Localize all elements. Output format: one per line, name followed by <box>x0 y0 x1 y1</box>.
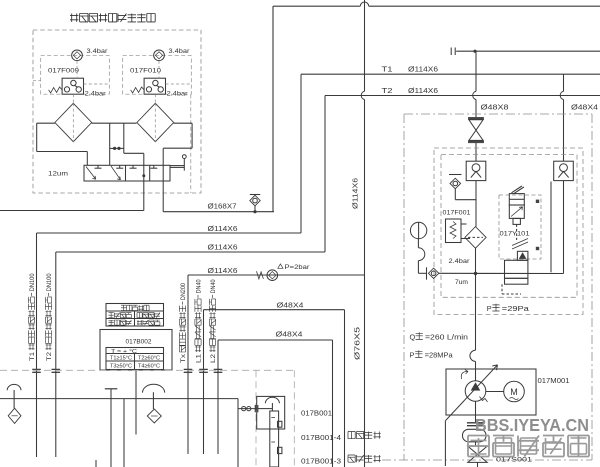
svg-text:017F001: 017F001 <box>443 210 471 217</box>
svg-text:L1: L1 <box>196 353 203 363</box>
svg-text:T1: T1 <box>382 65 393 74</box>
svg-text:017S001: 017S001 <box>496 457 532 464</box>
svg-text:Ø114X6: Ø114X6 <box>408 86 438 95</box>
svg-text:DN40: DN40 <box>210 279 217 293</box>
svg-text:P=2bar: P=2bar <box>285 264 311 271</box>
svg-text:L2: L2 <box>210 353 217 363</box>
svg-text:017M001: 017M001 <box>538 376 570 385</box>
svg-text:T ≈ + °C: T ≈ + °C <box>111 349 137 355</box>
svg-text:T2: T2 <box>46 351 53 361</box>
svg-text:7um: 7um <box>455 279 468 286</box>
svg-text:Ø168X7: Ø168X7 <box>208 202 237 211</box>
svg-text:3.4bar: 3.4bar <box>169 48 191 55</box>
svg-text:017B002: 017B002 <box>126 339 152 346</box>
svg-text:BBS.IYEYA.CN: BBS.IYEYA.CN <box>475 415 589 435</box>
svg-text:T1: T1 <box>29 351 36 361</box>
svg-text:017F010: 017F010 <box>130 68 161 75</box>
svg-text:=260 L/min: =260 L/min <box>425 333 468 342</box>
svg-text:017Y101: 017Y101 <box>500 231 530 238</box>
svg-text:T2≥60°C: T2≥60°C <box>138 356 160 362</box>
svg-text:Ø48X4: Ø48X4 <box>277 300 304 309</box>
svg-text:M: M <box>510 387 518 397</box>
svg-text:DN200: DN200 <box>180 283 187 300</box>
svg-text:Ø114X6: Ø114X6 <box>208 243 238 252</box>
svg-text:Tx: Tx <box>180 353 187 363</box>
svg-text:Q: Q <box>410 333 416 342</box>
svg-text:DN100: DN100 <box>29 273 36 291</box>
svg-text:Ø76X5: Ø76X5 <box>355 327 362 360</box>
svg-text:Ø114X6: Ø114X6 <box>208 266 238 275</box>
svg-text:=28MPa: =28MPa <box>425 351 454 360</box>
svg-text:017B001-4: 017B001-4 <box>301 433 341 442</box>
svg-text:T2: T2 <box>382 86 393 95</box>
svg-text:017F009: 017F009 <box>48 68 79 75</box>
svg-text:Ø48X8: Ø48X8 <box>481 103 509 112</box>
svg-text:3.4bar: 3.4bar <box>87 48 109 55</box>
svg-text:2.4bar: 2.4bar <box>449 258 471 265</box>
svg-text:Ø114X6: Ø114X6 <box>353 178 360 209</box>
svg-text:P: P <box>487 304 492 313</box>
svg-text:Ø48X4: Ø48X4 <box>276 329 303 338</box>
svg-text:T4≥60°C: T4≥60°C <box>138 363 160 369</box>
svg-text:DN100: DN100 <box>46 273 53 291</box>
svg-text:Ø114X6: Ø114X6 <box>408 65 438 74</box>
svg-text:Ø114X6: Ø114X6 <box>208 224 238 233</box>
svg-text:P: P <box>410 351 415 360</box>
svg-text:2.4bar: 2.4bar <box>85 90 107 97</box>
svg-text:Ø48X4: Ø48X4 <box>571 103 598 112</box>
svg-text:12um: 12um <box>48 170 68 177</box>
svg-text:017B001: 017B001 <box>301 409 332 418</box>
svg-text:T1≥15°C: T1≥15°C <box>110 356 132 362</box>
svg-text:2.4bar: 2.4bar <box>167 90 189 97</box>
svg-text:DN40: DN40 <box>196 279 203 293</box>
svg-text:017B001-3: 017B001-3 <box>301 457 341 466</box>
svg-text:=29Pa: =29Pa <box>502 304 530 313</box>
svg-text:T3≥50°C: T3≥50°C <box>110 363 132 369</box>
